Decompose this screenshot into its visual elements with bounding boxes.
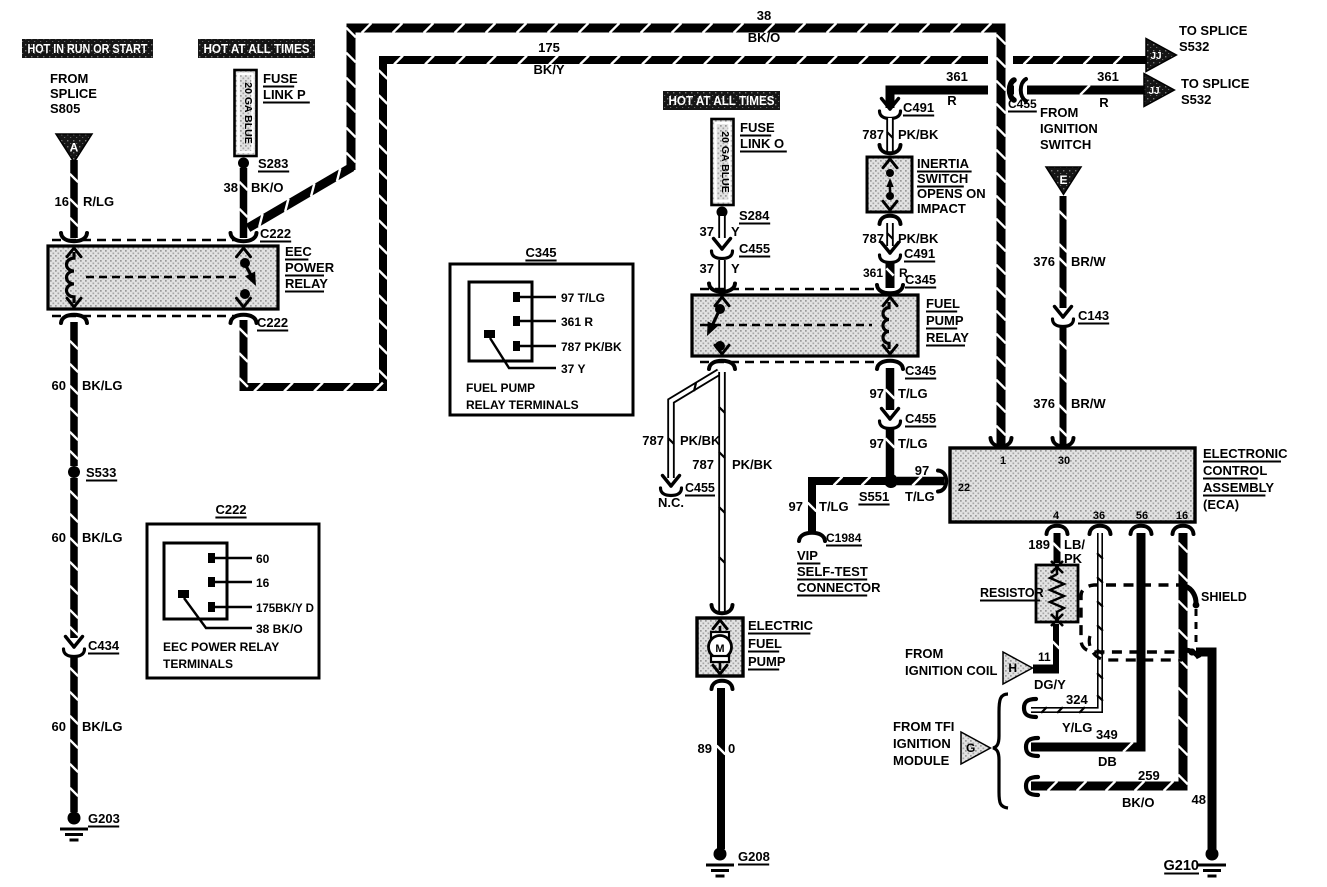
fuel pump relay coil arrows: [883, 297, 897, 354]
label 787 PK/BK (upper): [862, 127, 939, 142]
svg-text:C345: C345: [905, 363, 936, 378]
svg-text:FROM: FROM: [1040, 105, 1078, 120]
splice S533: [68, 466, 80, 478]
svg-text:T/LG: T/LG: [898, 386, 928, 401]
C222 terminals legend: [147, 502, 319, 678]
connector C491 (lower): [880, 243, 901, 263]
label 38 BK/O (top run): [748, 8, 781, 45]
svg-text:4: 4: [1053, 510, 1060, 522]
shield attach (top right): [1185, 586, 1199, 608]
label INERTIA SWITCH OPENS ON IMPACT: [917, 156, 986, 216]
svg-text:JJ: JJ: [1150, 51, 1161, 62]
label C455 (crossover): [1008, 97, 1037, 112]
svg-text:E: E: [1059, 173, 1067, 187]
dashed connector face C345 (top): [700, 288, 878, 291]
banner HOT AT ALL TIMES (left): [198, 39, 315, 58]
connector JJ (top, to splice S532): [1146, 39, 1176, 72]
svg-text:BK/LG: BK/LG: [82, 530, 122, 545]
svg-text:S533: S533: [86, 465, 116, 480]
wire 349 DB (pin 56): [1031, 533, 1141, 752]
svg-text:RESISTOR: RESISTOR: [980, 586, 1044, 600]
svg-text:0: 0: [728, 741, 735, 756]
label C222 (top): [260, 226, 291, 242]
label C434: [88, 638, 120, 654]
cup C345 top-right (361 R): [877, 285, 903, 293]
svg-text:376: 376: [1033, 254, 1055, 269]
ground G203: [60, 812, 88, 841]
connector A (from splice S805): [56, 134, 92, 162]
label 16 R/LG: [55, 194, 115, 209]
shield dashed outline: [1081, 585, 1196, 660]
svg-text:787: 787: [692, 457, 714, 472]
label EEC POWER RELAY: [285, 244, 335, 292]
label SHIELD: [1201, 590, 1247, 604]
banner HOT IN RUN OR START: [22, 39, 153, 58]
fuel pump relay switch: [702, 304, 725, 351]
svg-text:A: A: [70, 140, 79, 154]
wire 376 BR/W (E to C143): [1059, 196, 1067, 308]
inertia switch box: [867, 157, 912, 212]
wire 60 BK/LG (C434 to G203): [70, 656, 78, 812]
svg-text:G208: G208: [738, 849, 770, 864]
wire 16 R/LG: [70, 160, 78, 238]
svg-text:16: 16: [256, 576, 270, 590]
label 787 PK/BK (pump wire): [692, 457, 773, 472]
label C222 (bottom): [257, 315, 288, 331]
svg-text:38: 38: [757, 8, 771, 23]
brace (TFI wires): [993, 694, 1008, 808]
svg-text:RELAY TERMINALS: RELAY TERMINALS: [466, 398, 579, 412]
label RESISTOR: [980, 586, 1044, 601]
connector H (from ignition coil): [1003, 652, 1032, 684]
label N.C.: [658, 495, 684, 510]
svg-text:C345: C345: [905, 272, 936, 287]
svg-text:C455: C455: [685, 481, 715, 495]
wire 259 BK/O (pin 16): [1031, 533, 1188, 791]
svg-text:C455: C455: [739, 241, 770, 256]
svg-text:FROM: FROM: [50, 71, 88, 86]
label FUEL PUMP RELAY: [926, 296, 969, 346]
fuel pump relay coil: [883, 302, 889, 349]
svg-text:JJ: JJ: [1148, 86, 1159, 97]
svg-text:37: 37: [700, 261, 714, 276]
wire 97 T/LG (relay to C455): [885, 368, 894, 410]
svg-text:361: 361: [1097, 69, 1119, 84]
cup C222 top-left: [61, 233, 87, 241]
svg-text:Y: Y: [731, 224, 740, 239]
label C345 (relay top): [905, 272, 936, 288]
label 89 O: [698, 741, 736, 756]
svg-text:787 PK/BK: 787 PK/BK: [561, 340, 622, 354]
svg-text:LINK P: LINK P: [263, 87, 306, 102]
svg-text:N.C.: N.C.: [658, 495, 684, 510]
svg-text:S283: S283: [258, 156, 288, 171]
svg-text:FUSE: FUSE: [740, 120, 775, 135]
EEC relay internal dashed line: [86, 276, 236, 278]
wire 175 BK/Y (to splice arrow): [1013, 56, 1150, 65]
svg-text:SELF-TEST: SELF-TEST: [797, 564, 868, 579]
svg-text:G210: G210: [1164, 858, 1199, 874]
label FROM IGNITION SWITCH: [1040, 105, 1098, 152]
svg-text:ELECTRIC: ELECTRIC: [748, 618, 814, 633]
wire 89 O (pump to G208): [717, 688, 726, 849]
label C345 (relay bottom): [905, 363, 936, 379]
svg-text:POWER: POWER: [285, 260, 335, 275]
connector E (from ignition switch): [1046, 167, 1081, 194]
cup ECA pin 36: [1090, 526, 1111, 534]
splice S283: [238, 158, 249, 169]
wire 361 R (to splice arrow): [1027, 85, 1148, 95]
svg-text:HOT AT ALL TIMES: HOT AT ALL TIMES: [204, 42, 310, 56]
label VIP SELF-TEST CONNECTOR: [797, 548, 881, 596]
svg-text:R: R: [1099, 95, 1109, 110]
svg-text:787: 787: [862, 127, 884, 142]
label C491 (upper): [903, 100, 934, 116]
wire 38 BK/O (top run to ECA pin 1): [346, 23, 1006, 445]
svg-text:30: 30: [1058, 455, 1070, 467]
label 361 R (left of crossover): [946, 69, 968, 108]
label ELECTRONIC CONTROL ASSEMBLY (ECA): [1203, 446, 1288, 512]
svg-text:MODULE: MODULE: [893, 753, 950, 768]
connector G (from TFI ignition module): [961, 732, 990, 764]
splice S284: [717, 207, 728, 218]
svg-text:RELAY: RELAY: [926, 330, 969, 345]
fuel pump relay box: [692, 295, 918, 356]
svg-text:G203: G203: [88, 811, 120, 826]
banner HOT AT ALL TIMES (middle): [663, 91, 780, 110]
cup C345 top-left (37 Y): [709, 284, 735, 292]
svg-text:376: 376: [1033, 396, 1055, 411]
svg-text:S551: S551: [859, 489, 889, 504]
svg-text:60: 60: [52, 530, 66, 545]
wire 324 Y/LG (pin 36): [1031, 533, 1103, 713]
label G203: [88, 811, 120, 827]
cup ECA pin 16: [1173, 526, 1194, 534]
svg-text:C455: C455: [1008, 97, 1037, 111]
label S533: [86, 465, 117, 481]
label 11 DG/Y: [1034, 650, 1066, 692]
svg-text:60: 60: [52, 378, 66, 393]
label 97 T/LG (2): [870, 436, 928, 451]
svg-text:TO SPLICE: TO SPLICE: [1179, 23, 1248, 38]
label 38 BK/O (vertical): [224, 180, 284, 195]
cup ECA pin 1: [991, 438, 1012, 446]
svg-text:BK/O: BK/O: [251, 180, 284, 195]
svg-text:PK/BK: PK/BK: [898, 127, 939, 142]
wire 787 PK/BK (relay to N.C.): [668, 372, 719, 478]
wire 11 DG/Y (resistor to corner): [1052, 624, 1059, 671]
svg-text:SHIELD: SHIELD: [1201, 590, 1247, 604]
wire 97 T/LG (C455 to S551): [885, 428, 894, 476]
svg-text:259: 259: [1138, 768, 1160, 783]
svg-text:T/LG: T/LG: [905, 489, 935, 504]
label C143: [1078, 308, 1109, 324]
label 361 R (right): [1097, 69, 1119, 110]
connector C455 (97 T/LG): [880, 409, 901, 429]
label G208: [738, 849, 770, 865]
svg-text:TO SPLICE: TO SPLICE: [1181, 76, 1250, 91]
cup C222 bottom-left: [61, 315, 87, 323]
ground G208: [706, 848, 734, 877]
svg-text:S532: S532: [1181, 92, 1211, 107]
svg-text:BR/W: BR/W: [1071, 254, 1106, 269]
svg-text:89: 89: [698, 741, 712, 756]
svg-text:C491: C491: [904, 246, 935, 261]
svg-text:BK/LG: BK/LG: [82, 378, 122, 393]
wire 189 LB/PK: [1053, 533, 1061, 563]
svg-text:97: 97: [789, 499, 803, 514]
svg-text:RELAY: RELAY: [285, 276, 328, 291]
C345 terminals legend: [450, 245, 633, 415]
label 361 R (short): [863, 266, 908, 280]
svg-text:11: 11: [1038, 650, 1051, 664]
svg-text:FROM TFI: FROM TFI: [893, 719, 954, 734]
svg-text:38: 38: [224, 180, 238, 195]
svg-text:C345: C345: [525, 245, 556, 260]
label C455 (N.C.): [685, 481, 715, 496]
fuse link O (20 GA BLUE): [712, 119, 734, 205]
wire 38 BK/O (diagonal to top run): [248, 167, 352, 228]
svg-text:G: G: [966, 741, 975, 755]
svg-text:T/LG: T/LG: [898, 436, 928, 451]
svg-text:97 T/LG: 97 T/LG: [561, 291, 605, 305]
label TO SPLICE S532 (top): [1179, 23, 1248, 54]
label S551: [858, 489, 889, 505]
label FROM IGNITION COIL: [905, 646, 998, 678]
svg-text:361: 361: [863, 266, 883, 280]
svg-text:60: 60: [256, 552, 270, 566]
svg-text:EEC POWER RELAY: EEC POWER RELAY: [163, 640, 279, 654]
svg-text:36: 36: [1093, 510, 1105, 522]
wire 787 PK/BK (inertia to C491): [887, 223, 893, 246]
svg-text:20 GA BLUE: 20 GA BLUE: [242, 82, 254, 143]
svg-text:T/LG: T/LG: [819, 499, 849, 514]
wire 787 PK/BK (to inertia switch): [887, 118, 893, 152]
svg-text:SWITCH: SWITCH: [1040, 137, 1091, 152]
svg-text:C434: C434: [88, 638, 120, 653]
svg-text:22: 22: [958, 482, 970, 494]
label 175 BK/Y: [533, 40, 564, 77]
label 37 Y (lower): [700, 261, 740, 276]
svg-text:SPLICE: SPLICE: [50, 86, 97, 101]
EEC relay coil arrows: [67, 248, 81, 307]
svg-text:DG/Y: DG/Y: [1034, 677, 1066, 692]
svg-text:CONTROL: CONTROL: [1203, 463, 1267, 478]
svg-text:BK/O: BK/O: [748, 30, 781, 45]
label C455 (97): [905, 411, 936, 427]
svg-text:IGNITION: IGNITION: [1040, 121, 1098, 136]
svg-text:R: R: [947, 93, 957, 108]
wire 361 R (short, into fuel pump relay): [886, 262, 893, 288]
label C455 (37 Y): [739, 241, 770, 257]
svg-text:M: M: [715, 643, 724, 655]
svg-text:FUEL PUMP: FUEL PUMP: [466, 381, 535, 395]
fuse link P (20 GA BLUE): [235, 70, 257, 156]
svg-text:FUEL: FUEL: [926, 296, 960, 311]
dashed connector face C222 (top): [52, 239, 238, 242]
EEC relay switch: [240, 258, 261, 299]
EEC relay coil: [66, 252, 74, 303]
label FROM TFI IGNITION MODULE: [893, 719, 954, 768]
wire 175 BK/Y (relay to top run): [239, 56, 988, 392]
svg-text:ASSEMBLY: ASSEMBLY: [1203, 480, 1274, 495]
wire 48 (shield drain to G210): [1196, 652, 1212, 849]
resistor box: [1036, 561, 1078, 626]
label FROM SPLICE S805: [50, 71, 97, 116]
svg-text:C143: C143: [1078, 308, 1109, 323]
cup below fuel pump: [712, 681, 733, 689]
svg-text:C1984: C1984: [826, 531, 862, 545]
connector C455 (37 Y): [712, 239, 733, 259]
cup above fuel pump: [712, 605, 733, 613]
ground G210: [1198, 848, 1226, 877]
svg-text:BK/O: BK/O: [1122, 795, 1155, 810]
cup below inertia switch: [880, 216, 901, 224]
TFI half connector (349): [1026, 738, 1038, 756]
wire 361 R (inertia branch to crossover): [890, 90, 988, 108]
label 97 T/LG (VIP): [789, 499, 849, 514]
label 349 DB: [1096, 727, 1118, 769]
label 60 BK/LG (2): [52, 530, 123, 545]
label TO SPLICE S532 (lower): [1181, 76, 1250, 107]
svg-text:(ECA): (ECA): [1203, 497, 1239, 512]
label 48: [1192, 792, 1206, 807]
svg-text:1: 1: [1000, 455, 1006, 467]
wire 97 T/LG (S551 to VIP connector): [808, 477, 886, 532]
svg-text:FUSE: FUSE: [263, 71, 298, 86]
cup C345 bottom-left: [709, 361, 735, 369]
svg-text:37 Y: 37 Y: [561, 362, 585, 376]
svg-text:97: 97: [870, 436, 884, 451]
label 97 T/LG (1): [870, 386, 928, 401]
cup ECA pin 22: [938, 471, 946, 492]
label C1984: [826, 531, 862, 546]
svg-text:189: 189: [1028, 537, 1050, 552]
ECA pin labels: [958, 455, 1188, 522]
svg-text:R/LG: R/LG: [83, 194, 114, 209]
dashed connector face C345 (bottom): [700, 361, 878, 364]
svg-text:20 GA BLUE: 20 GA BLUE: [719, 131, 731, 192]
label FUSE LINK P: [263, 71, 310, 103]
svg-text:HOT AT ALL TIMES: HOT AT ALL TIMES: [669, 94, 775, 108]
svg-text:INERTIA: INERTIA: [917, 156, 970, 171]
label 376 BR/W (2): [1033, 396, 1106, 411]
label 787 PK/BK (lower): [862, 231, 939, 246]
cup above inertia switch: [880, 145, 901, 153]
svg-text:97: 97: [915, 463, 929, 478]
svg-text:S532: S532: [1179, 39, 1209, 54]
label 60 BK/LG (3): [52, 719, 123, 734]
EEC relay switch arrows: [237, 248, 251, 307]
label S284: [739, 208, 770, 224]
label FUSE LINK O: [740, 120, 787, 152]
svg-text:60: 60: [52, 719, 66, 734]
dashed connector face C222 (bottom): [52, 315, 238, 318]
label 97 T/LG (3): [905, 463, 935, 504]
wire 60 BK/LG (S533 to C434): [70, 478, 78, 638]
svg-text:FUEL: FUEL: [748, 636, 782, 651]
shield attach (bottom right): [1184, 648, 1199, 658]
cup C222 top-right: [231, 233, 257, 241]
connector C143: [1053, 307, 1074, 327]
label 259 BK/O: [1122, 768, 1160, 810]
svg-text:IMPACT: IMPACT: [917, 201, 966, 216]
svg-text:HOT IN RUN OR START: HOT IN RUN OR START: [28, 42, 148, 56]
svg-text:S284: S284: [739, 208, 770, 223]
svg-text:PK/BK: PK/BK: [732, 457, 773, 472]
svg-text:C222: C222: [257, 315, 288, 330]
TFI half connector (324): [1024, 699, 1036, 717]
svg-text:PK/BK: PK/BK: [680, 433, 721, 448]
svg-text:16: 16: [1176, 510, 1188, 522]
label 37 Y (upper): [700, 224, 740, 239]
wire 37 Y (S284 to C455): [718, 216, 726, 238]
svg-text:LINK O: LINK O: [740, 136, 784, 151]
svg-text:PK/BK: PK/BK: [898, 231, 939, 246]
svg-text:FROM: FROM: [905, 646, 943, 661]
cup C222 bottom-right: [231, 315, 257, 323]
svg-text:DB: DB: [1098, 754, 1117, 769]
connector C434: [64, 637, 85, 657]
svg-text:175: 175: [538, 40, 560, 55]
cup C345 bottom-right: [877, 361, 903, 369]
wire 38 BK/O (S283 to C222): [239, 168, 247, 238]
EEC power relay box: [48, 246, 278, 309]
wire 11 DG/Y (horizontal): [1033, 665, 1059, 674]
label 324 Y/LG: [1062, 692, 1092, 735]
svg-text:C222: C222: [260, 226, 291, 241]
svg-text:C491: C491: [903, 100, 934, 115]
svg-text:VIP: VIP: [797, 548, 818, 563]
svg-text:56: 56: [1136, 510, 1148, 522]
splice S551: [884, 474, 898, 488]
svg-text:324: 324: [1066, 692, 1088, 707]
svg-text:37: 37: [700, 224, 714, 239]
svg-text:349: 349: [1096, 727, 1118, 742]
label C491 (lower): [904, 246, 935, 262]
svg-text:361 R: 361 R: [561, 315, 593, 329]
svg-text:BK/LG: BK/LG: [82, 719, 122, 734]
connector C491 (upper): [880, 99, 901, 119]
svg-text:C222: C222: [215, 502, 246, 517]
fuel pump relay internal dashed line: [700, 324, 872, 326]
svg-text:Y/LG: Y/LG: [1062, 720, 1092, 735]
svg-text:SWITCH: SWITCH: [917, 171, 968, 186]
svg-text:CONNECTOR: CONNECTOR: [797, 580, 881, 595]
svg-text:EEC: EEC: [285, 244, 312, 259]
connector C455 (N.C.): [661, 476, 682, 496]
svg-text:BK/Y: BK/Y: [533, 62, 564, 77]
connector C1984: [799, 533, 825, 541]
label ELECTRIC FUEL PUMP: [748, 618, 814, 670]
svg-text:PUMP: PUMP: [926, 313, 964, 328]
svg-text:ELECTRONIC: ELECTRONIC: [1203, 446, 1288, 461]
cup ECA pin 4: [1047, 526, 1068, 534]
svg-text:787: 787: [642, 433, 664, 448]
connector JJ (lower, to splice S532): [1144, 74, 1174, 107]
svg-text:TERMINALS: TERMINALS: [163, 657, 233, 671]
svg-text:38 BK/O: 38 BK/O: [256, 622, 303, 636]
svg-text:IGNITION COIL: IGNITION COIL: [905, 663, 998, 678]
wire 60 BK/LG (relay to S533): [70, 322, 78, 466]
label S283: [258, 156, 289, 172]
label G210: [1164, 858, 1199, 874]
label 60 BK/LG (1): [52, 378, 123, 393]
svg-text:IGNITION: IGNITION: [893, 736, 951, 751]
svg-text:H: H: [1008, 661, 1017, 675]
label 189 LB/PK: [1028, 537, 1085, 566]
wire 37 Y (C455 to relay): [718, 260, 726, 290]
